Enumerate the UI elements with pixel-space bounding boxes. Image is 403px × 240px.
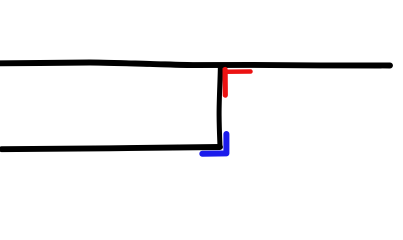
wire bottom horizontal line (2, 147, 220, 149)
wire vertical connector (219, 66, 220, 148)
blue corner mark (202, 134, 226, 154)
red corner mark vertical stroke (223, 70, 228, 96)
red corner mark horizontal stroke (225, 69, 251, 74)
wire top horizontal line (0, 63, 390, 66)
